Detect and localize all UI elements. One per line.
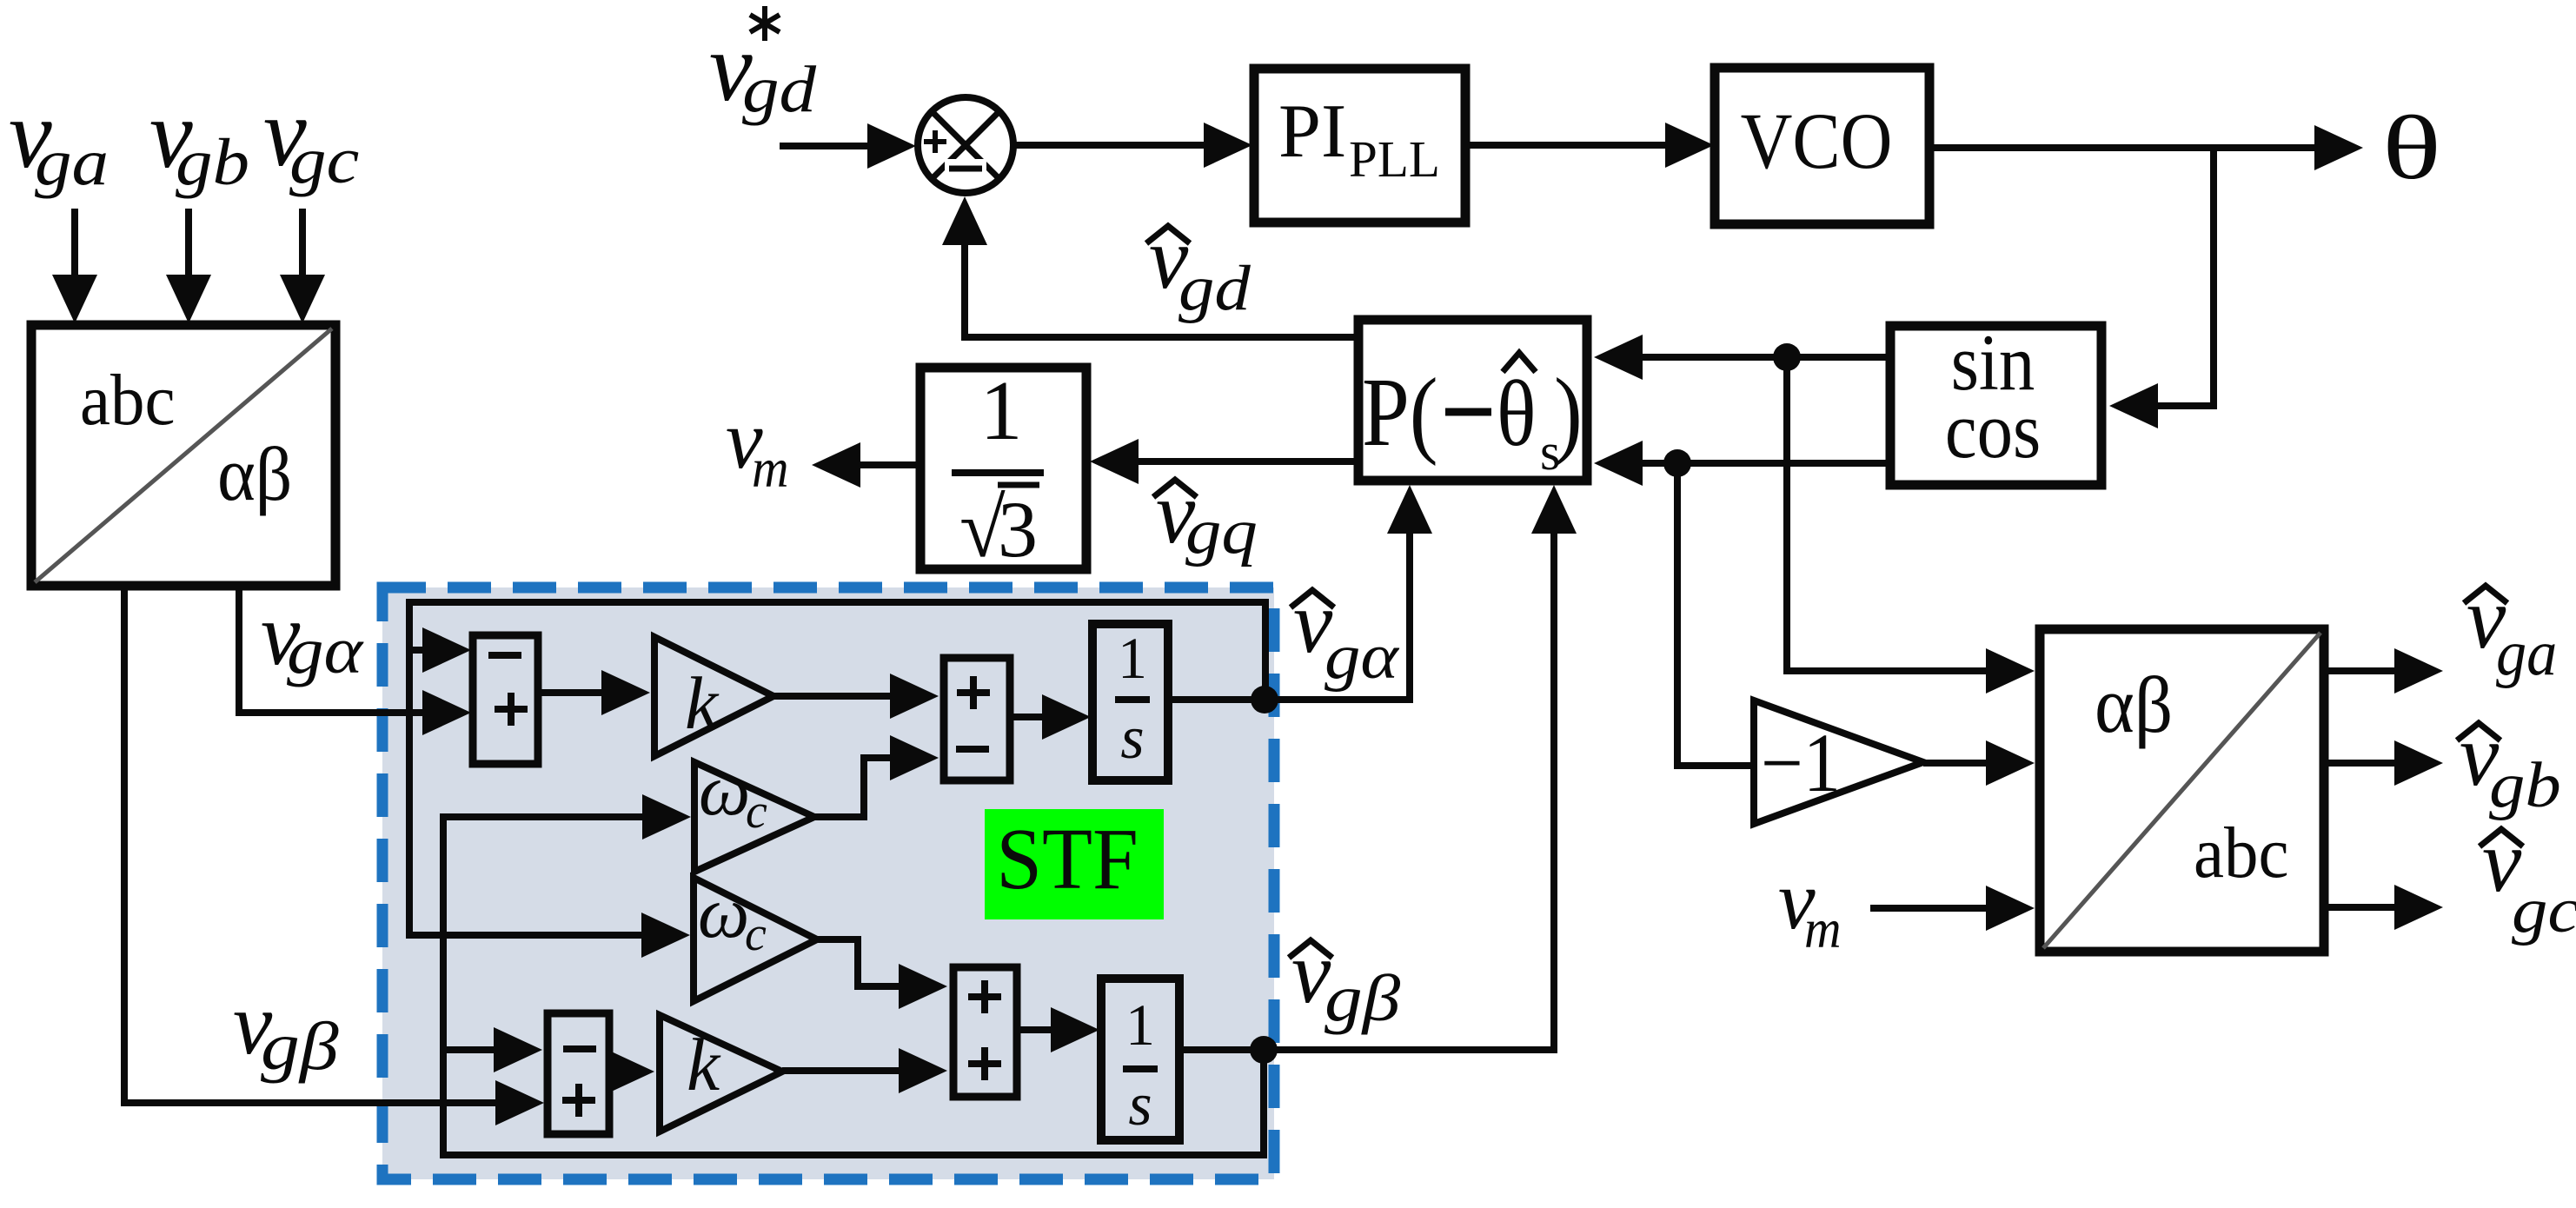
svg-text:VCO: VCO <box>1741 96 1893 185</box>
svg-text:ω: ω <box>698 873 749 953</box>
wire sin branch down to alpha-beta-abc block <box>1787 357 1988 671</box>
svg-text:s: s <box>1120 705 1144 772</box>
node junction dot on v-hat-g-beta output <box>1250 1036 1278 1064</box>
wire branch into sum2 minus input <box>443 1046 495 1053</box>
wire vgb into abc block <box>185 209 192 278</box>
wire summing circle to PI block <box>1013 142 1205 149</box>
node v-hat-gb label <box>2457 723 2500 740</box>
label STF green tag <box>985 809 1164 919</box>
svg-text:STF: STF <box>996 811 1139 907</box>
wire cos output to P block <box>1641 460 1890 467</box>
summing junction sum2 (minus plus) <box>548 1013 609 1134</box>
svg-text:m: m <box>1804 899 1842 960</box>
svg-text:abc: abc <box>80 359 176 441</box>
wire omega-c upper output to sumA minus input <box>814 758 892 817</box>
block alpha-beta to abc transform <box>2040 629 2324 952</box>
svg-text:cos: cos <box>1945 386 2041 475</box>
node v-hat-gc label <box>2480 829 2523 846</box>
svg-text:gd: gd <box>1178 252 1251 323</box>
svg-text:P(: P( <box>1362 358 1438 466</box>
node v-hat-g-beta label <box>1289 940 1332 958</box>
svg-text:abc: abc <box>2194 812 2289 893</box>
svg-text:gq: gq <box>1185 495 1258 567</box>
gain k1 triangle <box>654 637 773 756</box>
node v-hat-gq label <box>1153 480 1197 497</box>
svg-text:ga: ga <box>35 126 109 199</box>
svg-text:1: 1 <box>1125 992 1155 1058</box>
svg-text:c: c <box>746 785 767 839</box>
summing junction sum1 (minus plus) <box>473 635 538 764</box>
svg-text:−1: −1 <box>1761 717 1841 809</box>
block abc to alpha-beta transform <box>31 325 335 586</box>
wire vm output from one-over-sqrt3 <box>859 461 920 468</box>
node junction dot on sin line <box>1773 343 1801 371</box>
wire v-hat-g-alpha output of top integrator to P block <box>1168 532 1410 700</box>
wire minus-one to alpha-beta-abc block <box>1923 760 1988 767</box>
wire v-hat-g-alpha left vertical down to lower omega-c gain <box>409 650 643 935</box>
summing junction sumA (plus minus) <box>944 658 1010 780</box>
block VCO <box>1715 68 1929 224</box>
wire v-hat-gq from P block to one-over-sqrt3 <box>1137 458 1358 465</box>
wire top feedback line v-hat-g-alpha across STF top <box>409 602 1265 700</box>
block gain one-over-sqrt3 <box>920 368 1086 569</box>
block P rotation transform <box>1358 320 1587 481</box>
gain omega-c lower triangle <box>694 878 817 1001</box>
wire k1 to sumA plus input <box>773 693 892 700</box>
wire v-hat-gc output <box>2324 904 2396 911</box>
svg-text:1: 1 <box>980 364 1023 458</box>
svg-text:m: m <box>752 438 789 500</box>
node v-hat-ga label <box>2464 586 2507 603</box>
svg-text:k: k <box>687 1023 721 1106</box>
svg-text:c: c <box>745 907 767 961</box>
block integrator 1/s bottom <box>1101 979 1179 1140</box>
svg-text:s: s <box>1128 1072 1152 1138</box>
svg-text:ga: ga <box>2496 617 2557 688</box>
wire VCO branch down into sin-cos block <box>2156 148 2214 406</box>
summing junction circle with cross <box>918 97 1013 193</box>
wire vm into alpha-beta-abc block <box>1870 905 1988 912</box>
wire vg-beta from abc block to STF sum2 <box>124 586 497 1103</box>
svg-text:PI: PI <box>1278 90 1346 174</box>
gain omega-c upper triangle <box>694 762 814 872</box>
wire sin output to P block <box>1641 354 1890 361</box>
svg-text:αβ: αβ <box>2095 661 2173 750</box>
wire bottom feedback line v-hat-g-beta across STF bottom <box>443 817 1264 1155</box>
svg-text:1: 1 <box>1118 625 1147 691</box>
wire PI to VCO <box>1465 142 1667 149</box>
wire k2 to sumB lower plus input <box>782 1067 900 1074</box>
wire v-hat-ga output <box>2324 667 2396 674</box>
wire branch into sum1 minus input <box>409 647 424 654</box>
wire sumA to integrator 1/s top <box>1010 714 1044 720</box>
node junction dot on cos line <box>1663 449 1691 477</box>
wire v-hat-gb output <box>2324 760 2396 767</box>
wire vgc into abc block <box>299 209 306 278</box>
block PI-PLL <box>1254 69 1465 222</box>
wire sum1 to gain k1 <box>538 689 603 696</box>
wire vg-alpha from abc block to STF sum1 <box>239 586 424 713</box>
block integrator 1/s top <box>1092 624 1168 780</box>
svg-text:k: k <box>685 661 720 745</box>
svg-text:): ) <box>1554 358 1583 466</box>
node v-hat-g-alpha label <box>1291 590 1334 607</box>
node v-hat-gd label <box>1146 226 1190 243</box>
svg-text:ω: ω <box>699 750 750 831</box>
wire omega-c lower output to sumB plus input <box>817 939 900 986</box>
wire vga into abc block <box>71 209 78 278</box>
svg-text:αβ: αβ <box>217 432 292 516</box>
svg-text:gb: gb <box>2489 749 2561 820</box>
svg-text:PLL: PLL <box>1349 130 1440 188</box>
summing junction sumB (plus plus) <box>953 967 1017 1097</box>
gain k2 triangle <box>660 1015 782 1132</box>
wire v-hat-g-beta output of bottom integrator to P block <box>1179 532 1554 1050</box>
wire sumB to integrator 1/s bottom <box>1017 1026 1052 1033</box>
svg-text:gc: gc <box>289 124 359 197</box>
svg-text:gβ: gβ <box>261 1009 339 1084</box>
wire vgd-star into summing circle <box>780 143 869 149</box>
svg-text:gc: gc <box>2512 874 2576 946</box>
svg-text:gβ: gβ <box>1325 961 1400 1034</box>
wire v-hat-gd feedback from P block to summing circle <box>965 243 1358 337</box>
svg-text:3: 3 <box>998 485 1038 574</box>
block STF dashed boundary box <box>382 587 1274 1179</box>
svg-text:θ: θ <box>1497 362 1537 466</box>
node junction dot on v-hat-g-alpha output <box>1251 686 1278 714</box>
wire VCO to theta output <box>1929 144 2316 151</box>
wire sum2 to gain k2 <box>606 1049 654 1094</box>
svg-text:gb: gb <box>176 126 249 199</box>
svg-text:gα: gα <box>287 614 364 687</box>
block sin cos <box>1890 326 2101 485</box>
gain minus-one triangle <box>1754 700 1923 824</box>
svg-text:gd: gd <box>742 53 817 126</box>
wire cos branch down to gain minus-one <box>1677 463 1750 766</box>
svg-text:θ: θ <box>2382 97 2441 198</box>
svg-text:gα: gα <box>1325 621 1400 692</box>
